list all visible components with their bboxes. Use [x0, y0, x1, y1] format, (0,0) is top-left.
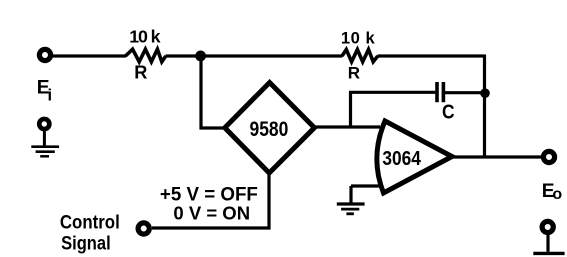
terminal Ei ground circle: [39, 119, 49, 129]
ground G3 bar: [533, 252, 564, 255]
terminal Eo ground circle: [542, 221, 553, 232]
wire cap branch vertical: [349, 92, 352, 127]
resistor R2: [342, 50, 378, 62]
resistor R1: [126, 49, 166, 62]
wire R1 to node A and on to R2: [166, 54, 343, 57]
svg-text:9580: 9580: [250, 117, 289, 141]
wire input Ei to R1: [53, 54, 127, 57]
svg-text:10 k: 10 k: [129, 27, 160, 47]
svg-text:R: R: [134, 62, 147, 82]
ground G1 bars: [31, 145, 59, 148]
ground G2 stem (op-amp): [349, 186, 352, 203]
wire R2 to feedback corner: [378, 54, 485, 57]
svg-text:C: C: [442, 101, 455, 124]
analog switch U1 9580 diamond: [225, 83, 315, 174]
node B junction dot: [480, 88, 490, 98]
wire op-amp output to Eo terminal: [452, 155, 541, 158]
svg-text:10 k: 10 k: [341, 28, 376, 47]
terminal Eo: [543, 151, 554, 162]
svg-text:3064: 3064: [382, 147, 421, 170]
ground G3 stem: [546, 233, 549, 252]
op-amp U2 3064: [377, 121, 452, 193]
ground G1 stem: [43, 129, 46, 146]
svg-text:Signal: Signal: [61, 233, 111, 255]
wire node A down to U1: [201, 56, 225, 128]
svg-text:0 V = ON: 0 V = ON: [173, 203, 250, 224]
capacitor C plates: [437, 82, 443, 102]
svg-text:i: i: [48, 87, 53, 105]
wire U1 output to op-amp input: [314, 125, 380, 128]
wire feedback vertical: [483, 55, 486, 158]
svg-text:Control: Control: [60, 211, 120, 233]
ground G2 bars: [337, 202, 365, 205]
node A junction dot: [195, 51, 206, 62]
terminal Ei: [39, 49, 50, 60]
svg-text:o: o: [552, 186, 562, 203]
terminal Control Signal: [138, 223, 149, 234]
wire op-amp lower input: [351, 184, 381, 187]
svg-text:R: R: [348, 64, 360, 83]
wire control to U1: [152, 171, 269, 228]
wire capacitor right plate to node B: [445, 91, 485, 94]
wire to capacitor left plate: [349, 91, 435, 94]
